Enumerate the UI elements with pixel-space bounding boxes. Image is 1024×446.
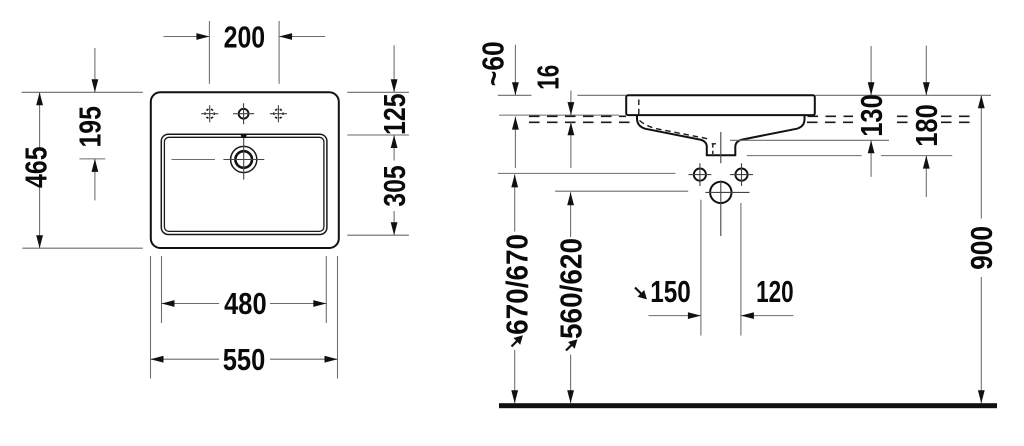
dimension ~60 upper arrow line [514, 45, 516, 96]
dimension 180 arrow up [923, 156, 930, 169]
bowl outer rim line [161, 134, 327, 234]
dimension 130 lower arrow line [870, 140, 872, 177]
dimension 130 arrow down [868, 82, 875, 95]
dimension 900 arrow down [978, 390, 985, 403]
dimension 670/670 arrow down [511, 390, 518, 403]
svg-text:125: 125 [378, 93, 412, 135]
svg-text:465: 465 [20, 146, 54, 188]
extension lines below holes (150/120) [701, 200, 741, 336]
fixing hole right [735, 169, 747, 181]
drain crosshair [223, 138, 264, 180]
dimension 130 arrow up [868, 140, 875, 153]
drain hole (side view) [710, 182, 731, 203]
slant arrow before 150 [635, 288, 647, 300]
dimension 16 arrow up [568, 122, 575, 135]
drain hidden line (dashed) [712, 143, 719, 154]
dimension 130 upper arrow line [870, 46, 872, 95]
extension line drain-hole level (560/620) [555, 190, 688, 192]
slant arrow before 560/620 [566, 339, 577, 350]
dimension 560/620 lower line [570, 355, 572, 404]
dimension ~60 arrow up [512, 117, 519, 130]
svg-text:16: 16 [531, 65, 565, 90]
dimension 305 lower arrow (down toward 235 line) [393, 211, 395, 235]
dimension 480 left arrowhead [162, 300, 175, 307]
drain outer circle [231, 146, 257, 172]
dimension 200 extension line right [278, 21, 280, 84]
drain level reference line segments [79, 158, 215, 161]
dimension 480 line [162, 303, 327, 305]
svg-text:150: 150 [650, 275, 691, 309]
dimension 560/620 arrow down [567, 390, 574, 403]
countertop dashed line lower [529, 121, 972, 123]
extension line bowl underside (130 bottom) [730, 139, 889, 141]
dimension ~60 arrow down [512, 82, 519, 95]
bowl interior hidden line (dashed) [638, 100, 640, 116]
svg-text:560/620: 560/620 [555, 238, 589, 339]
extension line basin top left segments [498, 94, 626, 96]
dimension 200 right arrow line [279, 36, 325, 38]
dimension 150 arrow line [649, 315, 701, 317]
svg-text:130: 130 [855, 94, 889, 137]
dimension 900 arrow up [978, 95, 985, 108]
dimension 200 left arrowhead [196, 33, 209, 40]
faucet hole left (dashed optional) [205, 109, 214, 118]
dimension 560/620 arrow up [567, 192, 574, 205]
extension line basin top right (long) [815, 94, 991, 96]
dimension 550 left arrowhead [151, 356, 164, 363]
svg-text:180: 180 [910, 104, 944, 147]
extension line tailpiece bottom (180 bottom) [747, 155, 952, 157]
faucet hole center crosshair [233, 103, 254, 124]
dimension 150 arrowhead [688, 312, 701, 319]
dimension 120 arrow line [741, 315, 794, 317]
dimension 480 right arrowhead [313, 300, 326, 307]
svg-text:195: 195 [73, 106, 107, 148]
drain inner circle [235, 151, 252, 168]
slant arrow before 670/670 [512, 335, 523, 346]
dimension 180 lower arrow line [925, 156, 927, 197]
dimension 900 upper line [980, 95, 982, 218]
dimension 125 upper arrow line [393, 45, 395, 92]
dimension 120 arrowhead [741, 312, 754, 319]
svg-text:550: 550 [223, 343, 266, 377]
bowl inner rim line [164, 137, 324, 231]
svg-text:~60: ~60 [477, 41, 511, 86]
dimension 200 right arrowhead [279, 33, 292, 40]
svg-text:900: 900 [965, 226, 999, 270]
dimension 195 arrow up (tip at drain level) [92, 159, 99, 172]
dimension 195 lower arrow line [94, 159, 96, 201]
dimension 16 arrow down [568, 102, 575, 115]
dimension 900 lower line [980, 277, 982, 403]
extension lines below basin [151, 256, 338, 379]
svg-text:670/670: 670/670 [501, 234, 535, 335]
dimension ~60 lower arrow line [514, 117, 516, 168]
faucet hole right (dashed optional) [274, 109, 283, 118]
dimension 550 right arrowhead [325, 356, 338, 363]
faucet hole left crosshair [201, 105, 218, 122]
bowl profile (side view) [637, 115, 805, 155]
floor line [499, 403, 997, 408]
faucet hole right crosshair [270, 105, 287, 122]
dimension 16 lower arrow line [570, 122, 572, 168]
svg-text:200: 200 [224, 20, 266, 54]
overflow notch [240, 134, 247, 138]
dimension 305 upper arrow (up toward 135 line) [393, 135, 395, 161]
dimension 180 arrow down [923, 82, 930, 95]
dimension 465 arrow down [36, 235, 43, 248]
dimension 16 upper arrow line [570, 91, 572, 116]
dimension 195 arrow down (tip at basin top) [92, 79, 99, 92]
dimension 670/670 lower line [514, 350, 516, 403]
dimension 465 line [39, 92, 41, 248]
svg-text:305: 305 [378, 165, 412, 207]
dimension 195 upper arrow line [94, 48, 96, 92]
extension line top-left (465 top) [22, 91, 143, 93]
extension line countertop level (solid) [499, 114, 619, 116]
basin outer outline (top view) [151, 92, 339, 248]
dimension 670/670 upper line [514, 174, 516, 231]
dimension 465 arrow up [36, 92, 43, 105]
dimension 670/670 arrow up [511, 174, 518, 187]
fixing hole left [694, 169, 706, 181]
drain hole crosshair + centerline [705, 132, 749, 236]
dimension 125 arrow down [391, 79, 398, 92]
dimension 200 left arrow line [164, 36, 210, 38]
dimension 200 extension line left [208, 21, 210, 84]
svg-text:120: 120 [756, 275, 794, 309]
svg-text:480: 480 [224, 287, 267, 321]
dimension 180 upper arrow line [925, 46, 927, 96]
basin rim band (side view) [626, 95, 815, 115]
dimension 550 line [151, 358, 338, 360]
extension line bottom-left (465 bottom) [22, 247, 142, 249]
faucet hole center (solid) [239, 109, 249, 119]
extension line fixing-hole level (670/670) [498, 172, 676, 174]
extension lines right of basin (125/305) [347, 92, 409, 235]
dimension 560/620 upper line [570, 192, 572, 237]
countertop dashed line upper [529, 115, 972, 117]
